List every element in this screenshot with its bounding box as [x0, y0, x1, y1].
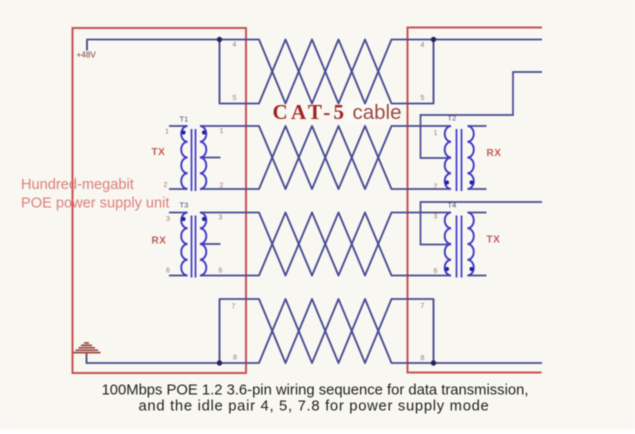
svg-text:2: 2 [434, 184, 438, 191]
wire pair 3-6 bottom wire [200, 213, 451, 276]
wire pair 4-5 wire B (pin5 bracket to right output) [220, 40, 543, 104]
svg-text:POE power supply unit: POE power supply unit [21, 196, 169, 212]
wire T3 center tap stub [202, 243, 221, 245]
svg-text:4: 4 [421, 42, 425, 49]
svg-text:1: 1 [434, 130, 438, 137]
wire pair 3-6 top wire [200, 213, 451, 276]
svg-text:6: 6 [166, 268, 170, 275]
svg-text:TX: TX [152, 147, 166, 158]
svg-text:CAT-5: CAT-5 [273, 100, 348, 124]
svg-text:8: 8 [233, 355, 237, 362]
wire T4 secondary stubs [468, 213, 487, 276]
svg-text:5: 5 [233, 95, 237, 102]
highlight box behind cable label [346, 100, 399, 123]
svg-text:1: 1 [220, 128, 224, 135]
transformer T2 phase dot left [445, 180, 449, 184]
transformer T2 left winding [445, 126, 451, 189]
svg-text:Hundred-megabit: Hundred-megabit [21, 177, 134, 193]
node pin4 junction right [431, 37, 436, 42]
node pin8 junction right [431, 360, 436, 365]
node pin8 junction left [217, 360, 222, 365]
svg-text:3: 3 [219, 215, 223, 222]
wire +48V feed / pair 4-5 wire A [87, 40, 434, 104]
wire T2 secondary stubs [468, 126, 487, 189]
svg-text:T2: T2 [448, 114, 457, 123]
wire T1 primary stubs [169, 126, 188, 189]
svg-text:3: 3 [166, 216, 170, 223]
svg-text:4: 4 [233, 42, 237, 49]
PSE unit box (left red rectangle) [73, 28, 247, 373]
wire T3 primary stubs [169, 213, 188, 276]
svg-text:RX: RX [152, 236, 167, 247]
ground symbol [73, 343, 101, 358]
transformer T3 left winding [181, 213, 187, 276]
svg-text:8: 8 [421, 355, 425, 362]
node pin4 junction left [217, 37, 222, 42]
svg-text:6: 6 [219, 268, 223, 275]
transformer T4 right winding [468, 213, 474, 276]
transformer T1 core [192, 129, 196, 191]
svg-text:T3: T3 [180, 201, 189, 210]
svg-text:5: 5 [421, 95, 425, 102]
svg-text:and the idle pair 4, 5, 7.8 fo: and the idle pair 4, 5, 7.8 for power su… [139, 399, 490, 415]
svg-text:RX: RX [487, 148, 502, 159]
transformer T4 phase dot left [445, 267, 449, 271]
transformer T1 phase dot right [202, 130, 206, 134]
PD unit box (right red rectangle, open right side) [408, 28, 543, 373]
transformer T3 phase dot right [202, 217, 206, 221]
transformer T3 core [192, 216, 196, 278]
svg-text:100Mbps POE 1.2 3.6-pin wiring: 100Mbps POE 1.2 3.6-pin wiring sequence … [102, 383, 529, 399]
svg-text:T4: T4 [448, 201, 457, 210]
svg-text:1: 1 [165, 129, 169, 136]
wire T2 center tap to right output [421, 72, 543, 158]
svg-text:6: 6 [434, 268, 438, 275]
wire pair 1-2 top wire [200, 126, 451, 189]
svg-text:7: 7 [421, 303, 425, 310]
transformer T1 left winding [181, 126, 187, 189]
svg-text:+48V: +48V [77, 51, 97, 60]
transformer T3 right winding [200, 213, 206, 276]
transformer T2 phase dot right [469, 180, 473, 184]
svg-text:T1: T1 [180, 115, 189, 124]
wire pair 7-8 top wire (pin7 bracket to right output) [220, 299, 543, 363]
svg-text:7: 7 [232, 304, 236, 311]
transformer T1 phase dot left [181, 130, 185, 134]
transformer T1 right winding [200, 126, 206, 189]
wire T1 center tap stub [202, 157, 221, 159]
svg-text:3: 3 [434, 214, 438, 221]
wire pair 1-2 bottom wire [200, 126, 451, 189]
transformer T2 core [457, 129, 462, 191]
wire T4 center tap to right output [421, 202, 543, 245]
transformer T3 phase dot left [181, 217, 185, 221]
svg-text:cable: cable [353, 101, 402, 124]
transformer T4 phase dot right [469, 267, 473, 271]
svg-text:2: 2 [220, 183, 224, 190]
wire ground feed / pair 7-8 bottom wire [87, 299, 434, 363]
transformer T4 core [457, 216, 462, 278]
svg-text:2: 2 [164, 182, 168, 189]
svg-text:TX: TX [487, 235, 501, 246]
transformer T2 right winding [468, 126, 474, 189]
transformer T4 left winding [445, 213, 451, 276]
